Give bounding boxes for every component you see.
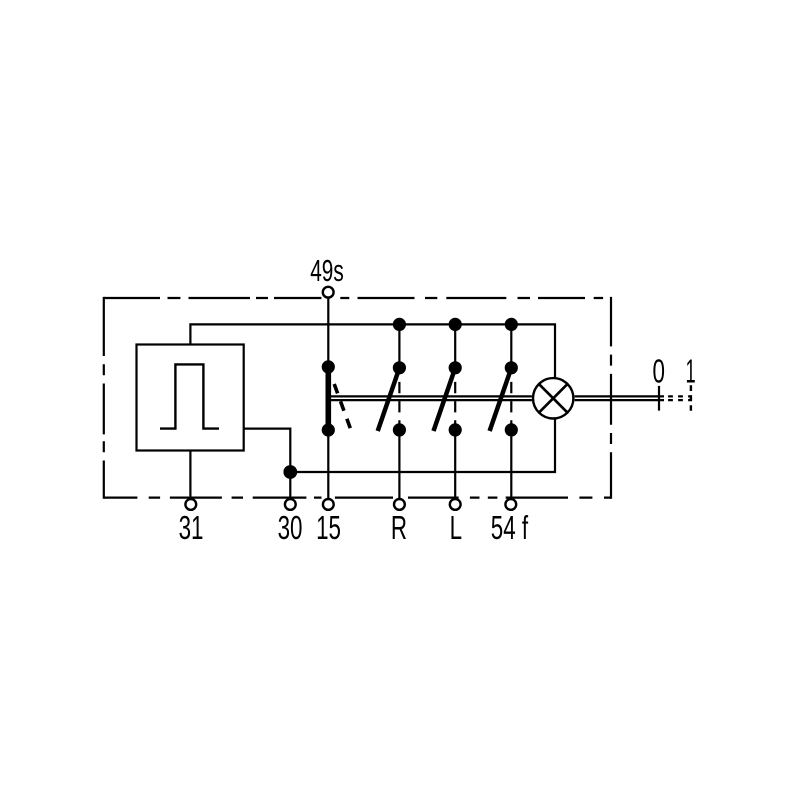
actuator bar double line (left of lamp) bbox=[330, 396, 532, 400]
wire: column 54f vertical segments bbox=[510, 324, 512, 498]
wire: column L vertical segments bbox=[454, 324, 456, 498]
enclosure border right edge (dash-dot) bbox=[610, 297, 612, 499]
contact blade L bbox=[434, 368, 456, 431]
contact blade R bbox=[378, 368, 400, 431]
terminal 30 (open circle) bbox=[285, 499, 296, 510]
wire: column R vertical segments bbox=[398, 324, 400, 498]
svg-text:0: 0 bbox=[652, 353, 664, 391]
svg-text:R: R bbox=[391, 510, 407, 548]
svg-text:31: 31 bbox=[179, 510, 204, 548]
terminal R (open circle) bbox=[394, 499, 405, 510]
contact dot: 15 lower bbox=[322, 423, 335, 436]
junction dot: rail / column 54f bbox=[505, 318, 518, 331]
wire: relay box top to rail and rail to lamp top bbox=[190, 324, 555, 378]
terminal 54f (open circle) bbox=[505, 499, 516, 510]
contact dot: R upper bbox=[393, 361, 406, 374]
actuator bar double line (right of lamp to position 0) bbox=[575, 396, 664, 400]
svg-text:L: L bbox=[450, 510, 462, 548]
contact blade 54f bbox=[490, 368, 512, 431]
contact dot: R lower bbox=[393, 423, 406, 436]
wire: 49s down through column 15 to terminal 15 bbox=[327, 298, 329, 498]
wire: relay box right side down to terminal 30 bbox=[244, 429, 291, 499]
svg-text:1: 1 bbox=[685, 353, 695, 390]
junction dot: 30 wire / bottom rail bbox=[283, 465, 297, 479]
flasher relay box U1 bbox=[137, 345, 244, 451]
junction dot: rail / column R bbox=[393, 318, 406, 331]
enclosure border left edge (dash-dot) bbox=[103, 297, 105, 499]
wire: relay box bottom to terminal 31 bbox=[189, 451, 191, 499]
svg-text:54 f: 54 f bbox=[491, 510, 528, 548]
position tick 0 bbox=[658, 386, 660, 411]
svg-text:49s: 49s bbox=[310, 253, 343, 288]
indicator lamp bbox=[533, 378, 573, 418]
dashed alternate contact position at column 15 bbox=[331, 376, 351, 431]
enclosure border bottom edge (dash-dot) bbox=[104, 497, 611, 499]
terminal 31 (open circle) bbox=[185, 499, 196, 510]
svg-text:15: 15 bbox=[316, 510, 341, 548]
contact dot: 54f lower bbox=[505, 423, 518, 436]
pulse symbol inside relay box bbox=[160, 364, 219, 428]
position tick 1 (dashed) bbox=[690, 385, 692, 411]
closed contact bar at column 15 bbox=[325, 367, 331, 430]
actuator bar dashed continuation to position 1 bbox=[668, 396, 692, 400]
contact dot: L upper bbox=[449, 361, 462, 374]
terminal 49s (open circle) bbox=[323, 287, 334, 298]
contact dot: 54f upper bbox=[505, 361, 518, 374]
wire: bottom rail from 30 junction to lamp bottom bbox=[290, 420, 555, 473]
contact dot: L lower bbox=[449, 423, 462, 436]
svg-text:30: 30 bbox=[278, 510, 303, 548]
terminal 15 (open circle) bbox=[323, 499, 334, 510]
junction dot: rail / column L bbox=[449, 318, 462, 331]
contact dot: 15 upper bbox=[322, 360, 335, 373]
enclosure border top edge (dash-dot) bbox=[104, 297, 603, 299]
terminal L (open circle) bbox=[450, 499, 461, 510]
